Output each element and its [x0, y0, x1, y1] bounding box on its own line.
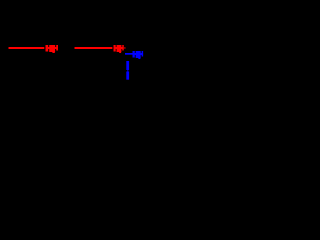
wire W4 pinch joint: [127, 70, 128, 72]
wire W4 segment b: [126, 72, 129, 80]
resistor R2: [114, 45, 124, 53]
wire W2 (middle red wire): [75, 47, 113, 49]
wire W4 segment a (blue vertical dashed wire, selected): [126, 61, 129, 70]
resistor R3 (selected, blue): [133, 51, 144, 59]
wire W3 (blue horizontal wire, selected): [125, 53, 134, 55]
wire stub / node after R2: [123, 47, 125, 49]
resistor R1: [46, 45, 59, 53]
wire W1 (left red wire): [9, 47, 45, 49]
